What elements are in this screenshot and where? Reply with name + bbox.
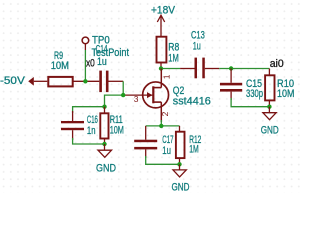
wire C14 down to node B: [122, 81, 124, 95]
wire node E to C13: [161, 68, 180, 70]
resistor R11: [100, 107, 124, 144]
wire node B to gate: [123, 94, 152, 96]
svg-text:1: 1: [162, 74, 172, 79]
capacitor C16: [61, 111, 98, 140]
svg-text:3: 3: [134, 94, 139, 104]
power -50V: [0, 75, 47, 87]
svg-text:1u: 1u: [162, 145, 171, 157]
wire source node F: [160, 120, 162, 126]
junction node A: [83, 79, 87, 83]
svg-text:330p: 330p: [246, 88, 263, 100]
junction node C: [102, 105, 106, 109]
capacitor C14: [96, 43, 124, 92]
resistor R9: [48, 50, 99, 87]
testpoint TP0: [82, 35, 129, 59]
svg-text:C14: C14: [96, 43, 108, 55]
junction node I: [177, 162, 181, 166]
power +18V: [151, 5, 176, 37]
wire C16 bottom to node D: [73, 138, 105, 144]
wire node B left and down to node C: [105, 95, 124, 107]
junction node D: [102, 142, 106, 146]
svg-text:10M: 10M: [110, 124, 124, 136]
svg-text:sst4416: sst4416: [173, 95, 211, 107]
junction node B: [121, 93, 125, 97]
svg-text:2: 2: [160, 111, 170, 116]
ground GND1: [96, 144, 116, 174]
ground GND3: [261, 107, 279, 137]
svg-text:+18V: +18V: [151, 5, 176, 17]
svg-text:1n: 1n: [87, 125, 96, 137]
svg-text:1u: 1u: [193, 41, 201, 53]
junction node G: [229, 66, 233, 70]
svg-text:GND: GND: [172, 181, 190, 193]
svg-text:1M: 1M: [189, 143, 199, 155]
junction node F: [159, 124, 163, 128]
wire node C to C16 branch: [73, 107, 105, 113]
svg-text:GND: GND: [96, 162, 116, 174]
transistor Q2: [134, 69, 211, 123]
resistor R10: [265, 69, 294, 107]
svg-text:10M: 10M: [277, 88, 294, 100]
resistor R8: [157, 37, 180, 69]
svg-text:1M: 1M: [168, 52, 179, 64]
svg-text:-50V: -50V: [0, 75, 26, 87]
capacitor C17: [134, 126, 173, 158]
capacitor C15: [220, 69, 263, 101]
svg-text:10M: 10M: [51, 60, 69, 72]
svg-text:GND: GND: [261, 125, 279, 137]
wire TP0 to node A: [84, 50, 86, 81]
capacitor C13: [191, 30, 219, 79]
wire C17 bottom to node I: [146, 156, 180, 164]
junction node E: [159, 66, 163, 70]
svg-text:x0: x0: [86, 57, 95, 69]
wire C13 to node G to R10: [219, 68, 269, 70]
svg-text:1u: 1u: [97, 56, 107, 68]
junction node H: [267, 105, 271, 109]
ground GND2: [172, 164, 190, 193]
wire C15 bottom to node H: [231, 98, 269, 107]
resistor R12: [176, 126, 201, 164]
svg-text:ai0: ai0: [270, 58, 284, 70]
